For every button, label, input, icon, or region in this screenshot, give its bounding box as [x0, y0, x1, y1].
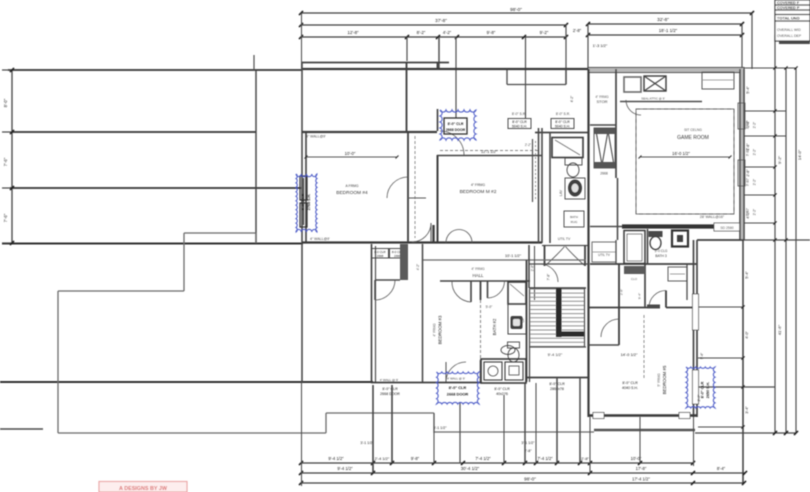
- svg-text:40x276: 40x276: [496, 392, 508, 396]
- svg-text:17'-4 1/2": 17'-4 1/2": [632, 477, 650, 482]
- svg-text:BATH #2: BATH #2: [492, 318, 497, 335]
- svg-text:5040 S.H.: 5040 S.H.: [555, 125, 570, 129]
- svg-text:UP: UP: [521, 317, 525, 323]
- svg-text:UTIL TV: UTIL TV: [558, 237, 571, 241]
- svg-text:2668 DOOR: 2668 DOOR: [380, 392, 400, 396]
- svg-text:3'-1 1/2": 3'-1 1/2": [360, 441, 374, 445]
- svg-text:CLO: CLO: [631, 277, 638, 281]
- svg-text:OVERALL WID: OVERALL WID: [777, 28, 801, 32]
- svg-text:3'-10": 3'-10": [746, 121, 750, 129]
- svg-text:BATH: BATH: [570, 215, 578, 219]
- svg-text:2668 DOOR: 2668 DOOR: [447, 392, 469, 397]
- svg-text:5'-0 CLG: 5'-0 CLG: [655, 249, 668, 253]
- svg-text:98'-0": 98'-0": [524, 477, 536, 482]
- svg-text:GAME ROOM: GAME ROOM: [677, 135, 709, 141]
- svg-text:3'-10": 3'-10": [746, 208, 750, 216]
- svg-text:A DESIGNS BY JW: A DESIGNS BY JW: [119, 486, 168, 492]
- svg-text:7'-6": 7'-6": [3, 157, 8, 166]
- svg-text:SD 2580: SD 2580: [720, 226, 733, 230]
- svg-text:4'-2": 4'-2": [416, 264, 420, 270]
- svg-text:9'-8": 9'-8": [411, 456, 420, 461]
- svg-text:8'-0" S.R.: 8'-0" S.R.: [512, 112, 526, 116]
- svg-text:9'-2": 9'-2": [777, 155, 782, 164]
- svg-text:3'-10": 3'-10": [746, 178, 750, 186]
- svg-text:2668: 2668: [600, 172, 608, 176]
- svg-text:4040 S.H.: 4040 S.H.: [622, 386, 638, 390]
- svg-text:7'-6": 7'-6": [3, 213, 8, 222]
- svg-text:4' WALL @ 9': 4' WALL @ 9': [380, 378, 399, 382]
- svg-text:9'-2": 9'-2": [540, 30, 549, 35]
- svg-text:OVERALL DEP: OVERALL DEP: [777, 34, 802, 38]
- svg-text:BEDROOM #3: BEDROOM #3: [438, 315, 443, 344]
- svg-text:5'-4": 5'-4": [638, 293, 642, 299]
- svg-text:7'-8": 7'-8": [547, 273, 551, 281]
- svg-text:4'-2": 4'-2": [443, 30, 452, 35]
- svg-text:5'-0": 5'-0": [486, 305, 494, 309]
- svg-text:2650 S.H.: 2650 S.H.: [706, 382, 710, 398]
- svg-text:2'-2": 2'-2": [753, 209, 757, 215]
- svg-text:8'-0" CLR: 8'-0" CLR: [701, 381, 705, 398]
- svg-text:HALL: HALL: [473, 273, 485, 278]
- svg-text:9'-8": 9'-8": [487, 30, 496, 35]
- svg-text:BEDROOM M #2: BEDROOM M #2: [460, 189, 497, 195]
- svg-text:2'-8": 2'-8": [746, 169, 750, 177]
- svg-text:COVERED P: COVERED P: [777, 6, 800, 10]
- svg-text:2'-8": 2'-8": [620, 289, 624, 295]
- svg-text:4'-2": 4'-2": [570, 95, 574, 103]
- svg-text:8'-0" CLR: 8'-0" CLR: [555, 120, 570, 124]
- svg-text:4" FRMG: 4" FRMG: [471, 183, 485, 187]
- svg-text:12'-1 1/2": 12'-1 1/2": [481, 150, 498, 154]
- svg-text:8'-0" CLR: 8'-0" CLR: [449, 385, 467, 390]
- svg-text:4" FRMG: 4" FRMG: [471, 267, 485, 271]
- svg-text:3'-10": 3'-10": [746, 148, 750, 156]
- svg-text:1'-3 1/2": 1'-3 1/2": [593, 43, 608, 48]
- svg-text:7'-4 1/2": 7'-4 1/2": [475, 456, 491, 461]
- svg-text:41'-6": 41'-6": [777, 324, 782, 335]
- svg-text:2'-2": 2'-2": [753, 149, 757, 155]
- svg-text:RUG: RUG: [571, 220, 578, 224]
- svg-text:2'-2": 2'-2": [753, 179, 757, 185]
- svg-text:5040 S.H.: 5040 S.H.: [512, 125, 527, 129]
- svg-text:12'-8": 12'-8": [347, 30, 359, 35]
- svg-text:28' WALL@16": 28' WALL@16": [700, 215, 725, 219]
- svg-text:8'-2": 8'-2": [417, 30, 426, 35]
- svg-text:STOR: STOR: [596, 99, 607, 104]
- svg-text:4' WALL @ 9': 4' WALL @ 9': [447, 377, 465, 381]
- svg-text:18'-1 1/2": 18'-1 1/2": [659, 28, 678, 33]
- svg-text:8'-0" CLR: 8'-0" CLR: [494, 387, 510, 391]
- svg-text:2'-8": 2'-8": [573, 28, 582, 33]
- svg-text:10'-1 1/2": 10'-1 1/2": [505, 254, 522, 258]
- svg-text:8'-0" CLR: 8'-0" CLR: [382, 387, 398, 391]
- svg-text:8'-0" CLR: 8'-0" CLR: [622, 381, 638, 385]
- svg-text:A FRMG: A FRMG: [346, 184, 359, 188]
- svg-text:2'-2": 2'-2": [753, 122, 757, 128]
- svg-text:9'-4 1/2": 9'-4 1/2": [548, 352, 563, 357]
- svg-text:LAV: LAV: [559, 189, 563, 196]
- svg-text:3'-4": 3'-4": [745, 406, 749, 414]
- svg-text:5'-4": 5'-4": [746, 86, 750, 94]
- svg-text:3'-1 1/2": 3'-1 1/2": [521, 441, 535, 445]
- svg-text:5'-4": 5'-4": [745, 271, 749, 279]
- svg-text:4" WALL@9': 4" WALL@9': [306, 135, 326, 139]
- svg-text:32'-8": 32'-8": [657, 17, 669, 22]
- svg-text:TOTAL UND: TOTAL UND: [777, 16, 800, 21]
- svg-text:7'-4 1/2": 7'-4 1/2": [537, 456, 553, 461]
- svg-text:9'-4 1/2": 9'-4 1/2": [328, 456, 344, 461]
- svg-text:BATH 3: BATH 3: [655, 254, 667, 258]
- svg-text:8'-4": 8'-4": [717, 466, 726, 471]
- svg-text:2668 DOOR: 2668 DOOR: [446, 128, 466, 132]
- svg-text:5" FRMG: 5" FRMG: [657, 373, 661, 387]
- svg-text:2768 S.H.: 2768 S.H.: [307, 194, 311, 210]
- svg-text:8'-0" S.R.: 8'-0" S.R.: [556, 112, 570, 116]
- svg-text:2'-8": 2'-8": [581, 456, 590, 461]
- svg-text:SIT CELNG: SIT CELNG: [684, 128, 702, 132]
- svg-text:2'-8": 2'-8": [531, 265, 535, 271]
- svg-text:2668: 2668: [377, 254, 384, 258]
- svg-text:4'-0": 4'-0": [745, 331, 749, 339]
- svg-text:8'-0" CLR: 8'-0" CLR: [448, 122, 464, 126]
- svg-text:10'-0": 10'-0": [345, 151, 356, 156]
- svg-text:8'-0" CLR: 8'-0" CLR: [301, 193, 305, 210]
- svg-text:98'-0": 98'-0": [510, 7, 522, 12]
- svg-text:8'-0" CLR: 8'-0" CLR: [512, 120, 527, 124]
- svg-text:16'-0 1/2": 16'-0 1/2": [672, 151, 690, 156]
- svg-text:14'-0 1/2": 14'-0 1/2": [621, 352, 638, 357]
- svg-text:37'-8": 37'-8": [435, 18, 447, 23]
- svg-text:2'-4 1/2": 2'-4 1/2": [375, 456, 390, 461]
- svg-text:17'-8": 17'-8": [636, 466, 647, 471]
- svg-text:BEDROOM #5: BEDROOM #5: [662, 365, 667, 394]
- svg-text:8'-0": 8'-0": [3, 98, 8, 107]
- svg-text:SEAL ATTIC @ 9': SEAL ATTIC @ 9': [641, 97, 665, 101]
- svg-text:14'-0": 14'-0": [797, 149, 802, 160]
- svg-text:5'-4": 5'-4": [700, 353, 704, 359]
- svg-text:4" WALL@9': 4" WALL@9': [310, 237, 330, 241]
- svg-text:4" FRMG: 4" FRMG: [433, 323, 437, 337]
- svg-text:UTIL TV: UTIL TV: [598, 253, 611, 257]
- svg-text:9'-4 1/2": 9'-4 1/2": [337, 466, 353, 471]
- svg-text:30'-4 1/2": 30'-4 1/2": [461, 466, 480, 471]
- svg-text:3'-1 1/2": 3'-1 1/2": [433, 426, 447, 430]
- svg-text:BEDROOM #4: BEDROOM #4: [336, 190, 368, 196]
- svg-text:COVERED F: COVERED F: [777, 1, 800, 5]
- svg-text:2'-2": 2'-2": [525, 143, 531, 147]
